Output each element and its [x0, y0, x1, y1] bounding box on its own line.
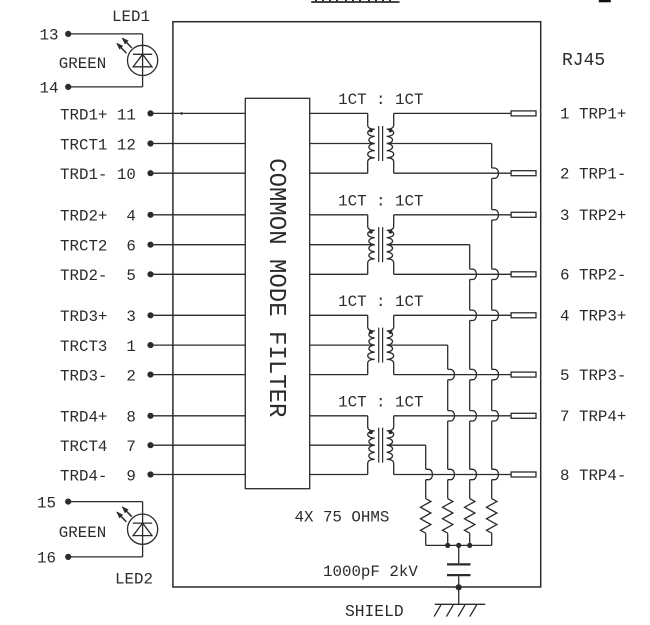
RJ45 pin bar 5	[511, 372, 536, 377]
transformer T4 primary winding	[310, 415, 368, 417]
wire TRD1+ to common mode filter	[153, 112, 246, 114]
svg-text:7 TRP4+: 7 TRP4+	[560, 408, 626, 426]
LED LED2 symbol	[128, 514, 158, 544]
resistor R2 75 ohms	[443, 499, 453, 534]
svg-text:4 TRP3+: 4 TRP3+	[560, 308, 626, 326]
svg-text:1CT : 1CT: 1CT : 1CT	[338, 193, 423, 211]
transformer T2 core	[378, 227, 380, 262]
svg-text:LED1: LED1	[112, 8, 150, 26]
svg-text:13: 13	[40, 26, 59, 44]
transformer T1 core	[378, 126, 380, 161]
wire T3 center tap vertical to resistor	[447, 345, 449, 369]
svg-text:LED2: LED2	[115, 570, 153, 588]
svg-text:SHIELD: SHIELD	[345, 602, 404, 621]
wire TRCT2 to common mode filter	[153, 244, 246, 246]
svg-text:1 TRP1+: 1 TRP1+	[560, 106, 626, 124]
svg-text:TRCT3 1: TRCT3 1	[60, 338, 136, 356]
wire T3 secondary- to pin bar	[394, 374, 511, 376]
wire hops (no connection) on T4 center tap	[426, 469, 433, 479]
transformer T1 primary phase dot	[369, 129, 373, 133]
transformer T2 secondary winding	[387, 215, 394, 274]
LED LED1 pin wires	[71, 33, 143, 35]
node dot TRD4+	[147, 413, 153, 419]
wire T1 secondary- to pin bar	[394, 172, 511, 174]
transformer T2 primary winding	[310, 214, 368, 216]
logo fragment (cut off, top right)	[599, 0, 611, 2]
junction dots on bus	[445, 543, 450, 548]
node dot TRCT4	[147, 442, 153, 448]
svg-text:1CT : 1CT: 1CT : 1CT	[338, 91, 423, 109]
transformer T4 secondary winding	[387, 416, 394, 475]
svg-text:6 TRP2-: 6 TRP2-	[560, 267, 626, 285]
wire T2 center tap horizontal	[387, 244, 470, 246]
svg-text:TRD3- 2: TRD3- 2	[60, 368, 136, 386]
wire TRD4+ to common mode filter	[153, 415, 246, 417]
junction tick on TRD1+ wire	[180, 112, 183, 115]
transformer T3 secondary winding	[387, 315, 394, 374]
RJ45 pin bar 6	[511, 272, 536, 277]
svg-text:TRCT2 6: TRCT2 6	[60, 238, 136, 256]
transformer T3 core	[378, 328, 380, 363]
wire T2 secondary+ to pin bar	[394, 214, 511, 216]
wire T1 center tap horizontal	[387, 143, 492, 145]
resistor R1 75 ohms	[421, 499, 431, 534]
node dot TRD3-	[147, 372, 153, 378]
RJ45 pin bar 4	[511, 313, 536, 318]
resistor R2 bottom lead	[447, 533, 449, 545]
svg-text:TRD4- 9: TRD4- 9	[60, 467, 136, 485]
transformer T1 secondary winding	[387, 113, 394, 173]
transformer T1 primary winding	[310, 112, 368, 114]
svg-text:TRD3+ 3: TRD3+ 3	[60, 308, 136, 326]
wire bus to capacitor C1	[458, 545, 460, 563]
svg-text:TRCT1 12: TRCT1 12	[60, 136, 136, 154]
RJ45 pin bar 1	[511, 111, 536, 116]
wire T2 secondary- to pin bar	[394, 273, 511, 275]
chassis ground symbol	[435, 603, 485, 605]
node dot TRD2-	[147, 271, 153, 277]
RJ45 pin bar 3	[511, 212, 536, 217]
wire hops (no connection) on T2 center tap	[470, 269, 477, 279]
svg-text:GREEN: GREEN	[59, 524, 106, 542]
transformer T2 primary phase dot	[369, 230, 373, 234]
resistor R4 75 ohms	[487, 499, 497, 534]
node dot TRCT1	[147, 140, 153, 146]
wire TRCT3 to common mode filter	[153, 344, 246, 346]
svg-text:5 TRP3-: 5 TRP3-	[560, 367, 626, 385]
resistor R1 bottom lead	[425, 533, 427, 545]
wire T2 center tap vertical to resistor	[469, 245, 471, 269]
wire hops (no connection) on T3 center tap	[448, 369, 455, 379]
svg-text:TRCT4 7: TRCT4 7	[60, 438, 136, 456]
junction dot at shield node	[456, 584, 462, 590]
svg-text:TRD2- 5: TRD2- 5	[60, 267, 136, 285]
node dot TRCT2	[147, 242, 153, 248]
svg-text:1CT : 1CT: 1CT : 1CT	[338, 293, 423, 311]
transformer T2 secondary phase dot	[389, 230, 393, 234]
common mode filter U1 box	[245, 98, 309, 488]
wire TRCT1 to common mode filter	[153, 143, 246, 145]
svg-text:1000pF 2kV: 1000pF 2kV	[323, 563, 418, 581]
transformer T4 primary phase dot	[369, 430, 373, 434]
wire TRCT4 to common mode filter	[153, 444, 246, 446]
resistor common bus wire	[426, 544, 492, 546]
RJ45 pin bar 2	[511, 171, 536, 176]
svg-text:4X 75 OHMS: 4X 75 OHMS	[295, 509, 390, 527]
wire TRD3- to common mode filter	[153, 374, 246, 376]
wire TRD4- to common mode filter	[153, 474, 246, 476]
resistor R4 bottom lead	[491, 533, 493, 545]
svg-text:16: 16	[37, 550, 56, 568]
wire TRD1- to common mode filter	[153, 172, 246, 174]
LED LED1 symbol	[128, 45, 158, 75]
svg-text:RJ45: RJ45	[562, 51, 605, 71]
svg-text:3 TRP2+: 3 TRP2+	[560, 207, 626, 225]
transformer T3 secondary phase dot	[389, 330, 393, 334]
transformer T4 secondary phase dot	[389, 430, 393, 434]
wire T4 center tap horizontal	[387, 444, 426, 446]
title text (cut off at top edge), underline	[311, 1, 399, 3]
node dot TRD1-	[147, 170, 153, 176]
resistor R3 75 ohms	[465, 499, 475, 534]
wire capacitor to shield	[458, 576, 460, 604]
connector body outline	[173, 22, 541, 587]
svg-text:GREEN: GREEN	[59, 55, 106, 73]
svg-text:14: 14	[40, 79, 59, 97]
node dot TRCT3	[147, 342, 153, 348]
wire T1 center tap vertical to resistor	[491, 144, 493, 169]
svg-text:COMMON MODE FILTER: COMMON MODE FILTER	[262, 158, 289, 417]
wire T4 secondary- to pin bar	[394, 474, 511, 476]
LED LED2 light arrows	[123, 507, 132, 517]
wire T3 center tap horizontal	[387, 344, 448, 346]
transformer T1 secondary phase dot	[389, 129, 393, 133]
svg-text:TRD2+ 4: TRD2+ 4	[60, 208, 136, 226]
resistor R3 bottom lead	[469, 533, 471, 545]
capacitor C1 1000pF 2kV	[447, 563, 471, 565]
svg-text:15: 15	[37, 494, 56, 512]
svg-text:TRD1+ 11: TRD1+ 11	[60, 106, 136, 124]
transformer T3 primary phase dot	[369, 330, 373, 334]
svg-text:TRD1- 10: TRD1- 10	[60, 166, 136, 184]
node dot TRD3+	[147, 312, 153, 318]
wire T3 secondary+ to pin bar	[394, 314, 511, 316]
RJ45 pin bar 8	[511, 472, 536, 477]
wire T4 secondary+ to pin bar	[394, 415, 511, 417]
RJ45 pin bar 7	[511, 413, 536, 418]
node dot TRD1+	[147, 110, 153, 116]
svg-text:TRD4+ 8: TRD4+ 8	[60, 409, 136, 427]
LED LED2 pin wires	[71, 501, 143, 503]
svg-text:8 TRP4-: 8 TRP4-	[560, 467, 626, 485]
node dot TRD4-	[147, 471, 153, 477]
wire T1 secondary+ to pin bar	[394, 112, 511, 114]
wire hops (no connection) on T1 center tap	[492, 168, 499, 178]
wire TRD3+ to common mode filter	[153, 314, 246, 316]
svg-text:1CT : 1CT: 1CT : 1CT	[338, 394, 423, 412]
LED LED2 pin dots	[65, 499, 71, 505]
wire T4 center tap vertical to resistor	[425, 445, 427, 469]
wire TRD2+ to common mode filter	[153, 214, 246, 216]
wire TRD2- to common mode filter	[153, 273, 246, 275]
node dot TRD2+	[147, 212, 153, 218]
LED LED1 pin dots	[65, 31, 71, 37]
svg-text:2 TRP1-: 2 TRP1-	[560, 166, 626, 184]
LED LED1 light arrows	[123, 38, 132, 48]
transformer T3 primary winding	[310, 314, 368, 316]
transformer T4 core	[378, 428, 380, 463]
